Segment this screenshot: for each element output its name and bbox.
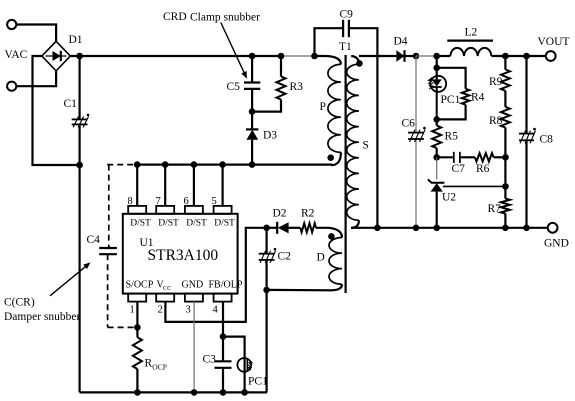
svg-text:VOUT: VOUT (538, 36, 570, 48)
svg-text:S: S (363, 140, 369, 152)
svg-text:L2: L2 (465, 27, 478, 39)
svg-text:CRD: CRD (163, 11, 187, 23)
svg-text:C9: C9 (340, 9, 354, 21)
svg-text:D1: D1 (69, 34, 83, 46)
svg-text:D2: D2 (273, 208, 287, 220)
svg-text:R: R (145, 358, 153, 370)
svg-text:D3: D3 (263, 130, 277, 142)
svg-text:D: D (317, 252, 325, 264)
svg-text:D/ST: D/ST (158, 219, 179, 229)
svg-text:R6: R6 (476, 163, 490, 175)
svg-text:C3: C3 (203, 354, 217, 366)
svg-text:S/OCP: S/OCP (126, 280, 154, 291)
svg-text:2: 2 (158, 305, 163, 316)
svg-text:Damper snubber: Damper snubber (4, 311, 80, 323)
svg-text:1: 1 (130, 305, 135, 316)
svg-text:R5: R5 (445, 131, 459, 143)
svg-text:GND: GND (544, 238, 569, 250)
svg-text:R8: R8 (489, 115, 503, 127)
svg-text:R9: R9 (489, 76, 503, 88)
svg-text:PC1: PC1 (248, 376, 268, 388)
svg-text:D/ST: D/ST (130, 219, 151, 229)
svg-text:C(CR): C(CR) (4, 297, 35, 309)
svg-text:T1: T1 (339, 41, 352, 53)
svg-text:4: 4 (213, 305, 219, 316)
svg-text:R3: R3 (290, 81, 304, 93)
svg-text:D/ST: D/ST (186, 219, 207, 229)
svg-text:CC: CC (163, 285, 172, 292)
svg-text:C8: C8 (540, 134, 554, 146)
svg-text:D/ST: D/ST (214, 219, 235, 229)
svg-text:R2: R2 (301, 208, 315, 220)
svg-text:R7: R7 (488, 203, 502, 215)
svg-text:7: 7 (156, 196, 161, 207)
svg-text:VAC: VAC (5, 49, 28, 61)
svg-text:STR3A100: STR3A100 (148, 247, 219, 264)
svg-text:U2: U2 (442, 192, 456, 204)
svg-text:C1: C1 (64, 98, 78, 110)
svg-text:C5: C5 (227, 81, 241, 93)
svg-text:GND: GND (182, 280, 204, 291)
svg-text:C4: C4 (87, 234, 101, 246)
svg-text:OCP: OCP (152, 362, 167, 371)
svg-text:FB/OLP: FB/OLP (209, 280, 243, 291)
svg-text:5: 5 (212, 196, 217, 207)
svg-text:C7: C7 (452, 163, 466, 175)
svg-text:C6: C6 (402, 118, 416, 130)
svg-text:C2: C2 (278, 251, 292, 263)
svg-text:6: 6 (184, 196, 189, 207)
svg-text:Clamp snubber: Clamp snubber (190, 12, 260, 24)
svg-text:P: P (320, 101, 326, 113)
svg-text:PC1: PC1 (441, 94, 461, 106)
svg-text:3: 3 (186, 305, 191, 316)
svg-text:D4: D4 (394, 36, 408, 48)
svg-text:8: 8 (128, 196, 133, 207)
svg-text:R4: R4 (471, 92, 485, 104)
